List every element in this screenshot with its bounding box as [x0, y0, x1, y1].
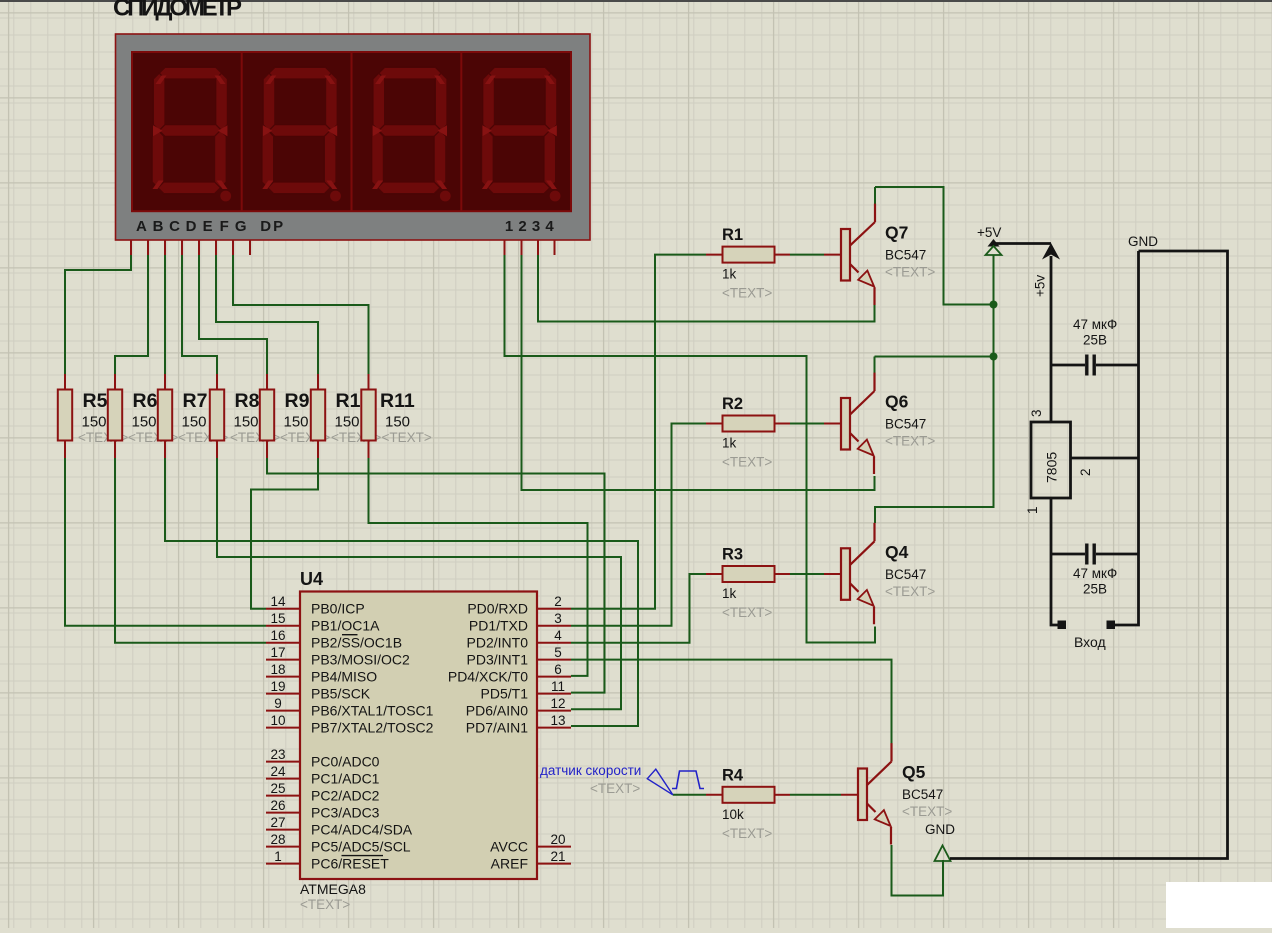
display segment pin B stub	[147, 240, 149, 255]
transistor Q6 emitter lead	[850, 433, 874, 474]
wire net R7 bottom to U4 pin 13	[165, 458, 638, 726]
svg-text:PB7/XTAL2/TOSC2: PB7/XTAL2/TOSC2	[311, 720, 434, 736]
svg-text:E: E	[203, 218, 213, 235]
U4 pin 2 stub	[537, 608, 571, 610]
U4 pin 1 stub	[266, 863, 300, 865]
transistor Q4 collector lead	[850, 523, 875, 565]
svg-text:21: 21	[550, 849, 565, 864]
op-amp U4 microcontroller ATMEGA8 box	[300, 592, 537, 880]
svg-text:27: 27	[270, 815, 285, 830]
U4 pin 14 stub	[266, 608, 300, 610]
svg-text:150: 150	[234, 414, 259, 431]
svg-text:СПИДОМЕТР: СПИДОМЕТР	[113, 0, 242, 22]
svg-text:10: 10	[270, 713, 285, 728]
wire net Q6 collector to +5V rail	[875, 357, 994, 374]
transistor Q7 emitter lead	[850, 264, 875, 305]
resistor R8 top stub	[216, 374, 218, 390]
U4 pin 23 stub	[266, 761, 300, 763]
svg-text:28: 28	[270, 832, 285, 847]
wire net R1 right to Q7 base	[790, 254, 824, 256]
svg-text:9: 9	[274, 696, 282, 711]
svg-text:25В: 25В	[1083, 333, 1107, 348]
display segment pin D stub	[181, 240, 183, 255]
wire C2 left lead	[1051, 553, 1085, 556]
wire segment B: display pin B to R6 top	[115, 255, 148, 374]
svg-text:150: 150	[385, 414, 410, 431]
display digit 1 segments	[152, 67, 231, 201]
svg-text:PD4/XCK/T0: PD4/XCK/T0	[448, 669, 528, 685]
svg-text:AREF: AREF	[491, 856, 528, 872]
svg-text:R3: R3	[722, 546, 743, 564]
resistor R1 left stub	[706, 254, 723, 256]
resistor R6 bottom stub	[114, 440, 116, 458]
U4 pin 25 stub	[266, 795, 300, 797]
svg-text:Q6: Q6	[885, 392, 909, 412]
pin name overline SS	[342, 634, 358, 636]
resistor R9 body	[260, 390, 274, 441]
svg-text:R4: R4	[722, 766, 744, 784]
svg-text:<TEXT>: <TEXT>	[722, 826, 772, 841]
svg-text:<TEXT>: <TEXT>	[885, 434, 935, 449]
svg-text:3: 3	[1029, 409, 1044, 417]
svg-text:PC5/ADC5/SCL: PC5/ADC5/SCL	[311, 839, 411, 855]
U4 pin 20 stub	[537, 846, 571, 848]
wire 7805 ground pin to GND rail	[1071, 457, 1139, 460]
resistor R6 body	[108, 390, 122, 441]
U4 pin 5 stub	[537, 659, 571, 661]
resistor R7 bottom stub	[164, 440, 166, 458]
transistor Q5 body bar	[858, 769, 867, 821]
wire net R9 bottom to U4 pin 11	[267, 458, 605, 693]
svg-text:20: 20	[550, 832, 565, 847]
wire segment G: display pin G to R11 top	[233, 255, 369, 374]
svg-text:<TEXT>: <TEXT>	[300, 897, 350, 912]
svg-text:PB6/XTAL1/TOSC1: PB6/XTAL1/TOSC1	[311, 703, 434, 719]
transistor Q7 collector lead	[850, 204, 875, 246]
svg-text:150: 150	[182, 414, 207, 431]
svg-text:AVCC: AVCC	[490, 839, 528, 855]
U4 pin 18 stub	[266, 676, 300, 678]
display digit 4 segments	[482, 67, 561, 201]
svg-text:PD6/AIN0: PD6/AIN0	[466, 703, 528, 719]
svg-text:PB3/MOSI/OC2: PB3/MOSI/OC2	[311, 652, 410, 668]
transistor Q5 collector lead	[867, 743, 892, 785]
svg-text:R9: R9	[285, 390, 310, 412]
wire net R2 right to Q6 base	[790, 423, 824, 425]
wire net U4 pin2 to R1 left	[571, 255, 706, 609]
display digit pin 1 stub	[504, 240, 506, 255]
svg-text:PC2/ADC2: PC2/ADC2	[311, 788, 380, 804]
wire net R5 bottom to U4 pin 15	[65, 458, 266, 626]
svg-text:F: F	[220, 218, 229, 235]
svg-text:7805: 7805	[1044, 452, 1060, 483]
U4 pin 16 stub	[266, 642, 300, 644]
resistor R2 body	[723, 416, 775, 432]
display segment pin DP stub	[249, 240, 251, 255]
resistor R3 body	[723, 566, 775, 582]
wire net R4 right to Q5 base	[790, 794, 841, 796]
svg-text:25: 25	[270, 781, 285, 796]
input terminal left pad	[1058, 621, 1067, 630]
svg-text:+5V: +5V	[977, 225, 1001, 240]
svg-text:R1: R1	[722, 226, 743, 244]
7-segment display inner panel	[132, 52, 571, 211]
svg-text:G: G	[235, 218, 247, 235]
wire net digit2 to Q6 emitter	[522, 255, 875, 490]
resistor R2 right stub	[775, 423, 791, 425]
svg-text:PB1/OC1A: PB1/OC1A	[311, 618, 380, 634]
U4 pin 4 stub	[537, 642, 571, 644]
svg-text:R5: R5	[83, 390, 108, 412]
wire net digit1 to Q4 emitter	[505, 255, 876, 643]
capacitor C2 47uF plates	[1087, 544, 1094, 565]
capacitor C1 47uF plates	[1087, 355, 1094, 376]
svg-text:<TEXT>: <TEXT>	[590, 781, 640, 796]
resistor R10 body	[311, 390, 325, 441]
svg-text:PC3/ADC3: PC3/ADC3	[311, 805, 380, 821]
transistor Q4 body bar	[841, 548, 850, 600]
svg-text:PD1/TXD: PD1/TXD	[469, 618, 528, 634]
svg-text:<TEXT>: <TEXT>	[902, 804, 952, 819]
svg-text:15: 15	[270, 611, 285, 626]
svg-text:47 мкФ: 47 мкФ	[1073, 566, 1117, 581]
svg-text:2: 2	[554, 594, 562, 609]
U4 pin 11 stub	[537, 693, 571, 695]
U4 pin 15 stub	[266, 625, 300, 627]
svg-text:R8: R8	[235, 390, 260, 412]
svg-text:BC547: BC547	[885, 417, 926, 432]
svg-text:1: 1	[274, 849, 282, 864]
wire net R10 bottom to U4 pin 14	[251, 458, 318, 609]
svg-text:ATMEGA8: ATMEGA8	[300, 881, 366, 897]
svg-text:R7: R7	[183, 390, 208, 412]
transistor Q6 base stub	[824, 423, 841, 425]
svg-text:<TEXT>: <TEXT>	[722, 455, 772, 470]
transistor Q7 base stub	[824, 254, 841, 256]
resistor R9 top stub	[266, 374, 268, 390]
svg-text:C: C	[169, 218, 180, 235]
resistor R6 top stub	[114, 374, 116, 390]
transistor Q6 collector lead	[850, 373, 875, 415]
node +5v arrow marker	[1042, 243, 1060, 260]
wire net Q5 emitter to ground	[892, 845, 944, 896]
svg-text:47 мкФ: 47 мкФ	[1073, 317, 1117, 332]
resistor R8 body	[210, 390, 224, 441]
svg-text:150: 150	[132, 414, 157, 431]
svg-text:<TEXT>: <TEXT>	[885, 584, 935, 599]
svg-text:16: 16	[270, 628, 285, 643]
input terminal right pad	[1107, 621, 1116, 630]
svg-text:<TEXT>: <TEXT>	[722, 286, 772, 301]
U4 pin 17 stub	[266, 659, 300, 661]
svg-text:GND: GND	[925, 822, 955, 837]
svg-text:DP: DP	[260, 218, 285, 235]
resistor R2 left stub	[706, 423, 723, 425]
U4 pin 13 stub	[537, 727, 571, 729]
svg-text:Q5: Q5	[902, 762, 926, 782]
U4 pin 24 stub	[266, 778, 300, 780]
display digit 3 segments	[372, 67, 451, 201]
svg-text:2: 2	[1078, 468, 1093, 476]
wire net R3 right to Q4 base	[790, 573, 824, 575]
svg-text:12: 12	[550, 696, 565, 711]
svg-text:6: 6	[554, 662, 562, 677]
display segment pin F stub	[215, 240, 217, 255]
svg-text:<TEXT>: <TEXT>	[722, 605, 772, 620]
display segment pin E stub	[198, 240, 200, 255]
wire net U4 pin4 to R3 left	[571, 574, 706, 643]
wire net R8 bottom to U4 pin 12	[217, 458, 621, 709]
U4 pin 10 stub	[266, 727, 300, 729]
svg-text:BC547: BC547	[885, 567, 926, 582]
wire net Q7 collector to +5V rail	[875, 187, 994, 305]
transistor Q4 emitter arrow	[858, 590, 874, 606]
svg-text:13: 13	[550, 713, 565, 728]
transistor Q7 body bar	[841, 229, 850, 281]
resistor R10 bottom stub	[317, 440, 319, 458]
svg-text:PD3/INT1: PD3/INT1	[467, 652, 529, 668]
svg-text:1: 1	[1025, 506, 1040, 514]
svg-text:PD7/AIN1: PD7/AIN1	[466, 720, 528, 736]
U4 pin 19 stub	[266, 693, 300, 695]
display digit 2 segments	[262, 67, 341, 201]
svg-text:3: 3	[532, 218, 540, 235]
7-segment display module outer frame	[116, 34, 591, 240]
svg-text:U4: U4	[300, 569, 323, 589]
generator probe arrow (speed sensor)	[647, 769, 673, 795]
wire net digit3 to Q7 emitter	[538, 255, 875, 322]
svg-text:11: 11	[551, 679, 565, 694]
svg-text:PB5/SCK: PB5/SCK	[311, 686, 371, 702]
svg-text:PB4/MISO: PB4/MISO	[311, 669, 377, 685]
U4 pin 26 stub	[266, 812, 300, 814]
junction: Q6 collector on +5V rail	[990, 353, 998, 361]
resistor R4 left stub	[706, 794, 723, 796]
svg-text:19: 19	[270, 679, 285, 694]
svg-text:PB2/SS/OC1B: PB2/SS/OC1B	[311, 635, 402, 651]
transistor Q5 base stub	[841, 794, 858, 796]
svg-text:1k: 1k	[722, 267, 737, 282]
wire net +5V rail to Q4 collector	[875, 255, 994, 523]
junction: Q7 collector on +5V rail	[990, 301, 998, 309]
resistor R5 body	[58, 390, 72, 441]
svg-text:PC0/ADC0: PC0/ADC0	[311, 754, 380, 770]
pin name overline RESET	[342, 855, 384, 857]
wire segment C: display pin C to R7 top	[164, 255, 166, 374]
svg-text:Вход: Вход	[1074, 634, 1106, 650]
resistor R11 bottom stub	[368, 440, 370, 458]
svg-text:BC547: BC547	[902, 787, 943, 802]
U4 pin 9 stub	[266, 710, 300, 712]
transistor Q6 emitter arrow	[858, 440, 874, 456]
U4 pin 27 stub	[266, 829, 300, 831]
svg-text:25В: 25В	[1083, 582, 1107, 597]
wire net generator to R4 left	[673, 794, 706, 796]
wire net U4 pin5 to Q5 collector	[571, 660, 892, 744]
svg-text:B: B	[153, 218, 164, 235]
wire C1 right lead to GND rail	[1096, 364, 1139, 367]
svg-text:1k: 1k	[722, 436, 737, 451]
wire segment E: display pin E to R9 top	[199, 255, 267, 374]
svg-text:18: 18	[270, 662, 285, 677]
svg-text:PB0/ICP: PB0/ICP	[311, 601, 365, 617]
svg-text:PC6/RESET: PC6/RESET	[311, 856, 389, 872]
display segment pin C stub	[164, 240, 166, 255]
resistor R1 body	[723, 247, 775, 263]
wire net R11 bottom to U4 pin 6	[369, 458, 588, 676]
svg-text:+5v: +5v	[1033, 275, 1048, 297]
svg-text:1k: 1k	[722, 586, 737, 601]
svg-text:датчик скорости: датчик скорости	[540, 763, 641, 778]
U4 pin 21 stub	[537, 863, 571, 865]
wire GND rail vertical	[1115, 251, 1139, 625]
svg-text:BC547: BC547	[885, 248, 926, 263]
U4 pin 6 stub	[537, 676, 571, 678]
svg-text:PC4/ADC4/SDA: PC4/ADC4/SDA	[311, 822, 413, 838]
svg-text:PD5/T1: PD5/T1	[481, 686, 529, 702]
resistor R9 bottom stub	[266, 440, 268, 458]
svg-text:<TEXT>: <TEXT>	[382, 430, 432, 445]
svg-text:A: A	[136, 218, 147, 235]
wire C1 left lead	[1051, 364, 1085, 367]
resistor R1 right stub	[775, 254, 791, 256]
voltage regulator 7805 box	[1031, 422, 1071, 498]
wire GND rail top to right	[950, 251, 1228, 859]
svg-text:R6: R6	[133, 390, 158, 412]
svg-text:5: 5	[554, 645, 562, 660]
svg-text:D: D	[186, 218, 197, 235]
svg-text:150: 150	[82, 414, 107, 431]
transistor Q5 emitter arrow	[875, 810, 891, 826]
display segment pin G stub	[232, 240, 234, 255]
resistor R7 top stub	[164, 374, 166, 390]
resistor R5 top stub	[64, 374, 66, 390]
transistor Q4 emitter lead	[850, 583, 874, 624]
resistor R3 right stub	[775, 573, 791, 575]
transistor Q7 emitter arrow	[858, 271, 874, 287]
svg-text:2: 2	[518, 218, 526, 235]
svg-text:R2: R2	[722, 395, 743, 413]
svg-text:GND: GND	[1128, 234, 1158, 249]
resistor R11 top stub	[368, 374, 370, 390]
svg-text:Q4: Q4	[885, 542, 909, 562]
resistor R4 right stub	[775, 794, 791, 796]
wire segment A: display pin A to R5 top	[65, 255, 131, 374]
wire regulator output vertical	[1050, 256, 1053, 422]
wire +5V arrow to regulator output node	[994, 242, 1052, 245]
svg-text:3: 3	[554, 611, 562, 626]
transistor Q4 base stub	[824, 573, 841, 575]
svg-text:PC1/ADC1: PC1/ADC1	[311, 771, 380, 787]
svg-text:150: 150	[284, 414, 309, 431]
resistor R7 body	[158, 390, 172, 441]
svg-text:4: 4	[545, 218, 554, 235]
svg-text:150: 150	[335, 414, 360, 431]
wire 7805 input vertical	[1051, 498, 1058, 625]
resistor R5 bottom stub	[64, 440, 66, 458]
svg-text:1: 1	[505, 218, 513, 235]
U4 pin 3 stub	[537, 625, 571, 627]
svg-text:10k: 10k	[722, 807, 744, 822]
svg-text:17: 17	[270, 645, 285, 660]
generator pulse waveform symbol	[672, 771, 704, 789]
display digit pin 2 stub	[521, 240, 523, 255]
svg-text:PD0/RXD: PD0/RXD	[467, 601, 528, 617]
resistor R11 body	[361, 390, 375, 441]
resistor R10 top stub	[317, 374, 319, 390]
display digit pin 4 stub	[554, 240, 556, 255]
resistor R4 body	[723, 787, 775, 803]
wire net R6 bottom to U4 pin 16	[115, 458, 266, 643]
ground symbol GND (green)	[935, 846, 951, 862]
power symbol +5V arrow	[988, 239, 1000, 247]
svg-text:26: 26	[270, 798, 285, 813]
svg-text:R11: R11	[380, 390, 415, 412]
svg-text:<TEXT>: <TEXT>	[885, 265, 935, 280]
svg-text:24: 24	[270, 764, 286, 779]
svg-text:23: 23	[270, 747, 285, 762]
wire segment F: display pin F to R10 top	[216, 255, 318, 374]
display segment pin A stub	[130, 240, 132, 255]
svg-text:4: 4	[554, 628, 562, 643]
wire C2 right lead to GND rail	[1096, 553, 1139, 556]
svg-text:Q7: Q7	[885, 223, 908, 243]
display digit cell dividers	[242, 52, 462, 211]
wire segment D: display pin D to R8 top	[182, 255, 217, 374]
U4 pin 12 stub	[537, 710, 571, 712]
U4 pin 28 stub	[266, 846, 300, 848]
wire net U4 pin3 to R2 left	[571, 424, 706, 626]
svg-text:PD2/INT0: PD2/INT0	[467, 635, 529, 651]
resistor R3 left stub	[706, 573, 723, 575]
resistor R8 bottom stub	[216, 440, 218, 458]
transistor Q5 emitter lead	[867, 804, 891, 845]
transistor Q6 body bar	[841, 398, 850, 450]
display digit pin 3 stub	[537, 240, 539, 255]
svg-text:14: 14	[270, 594, 286, 609]
